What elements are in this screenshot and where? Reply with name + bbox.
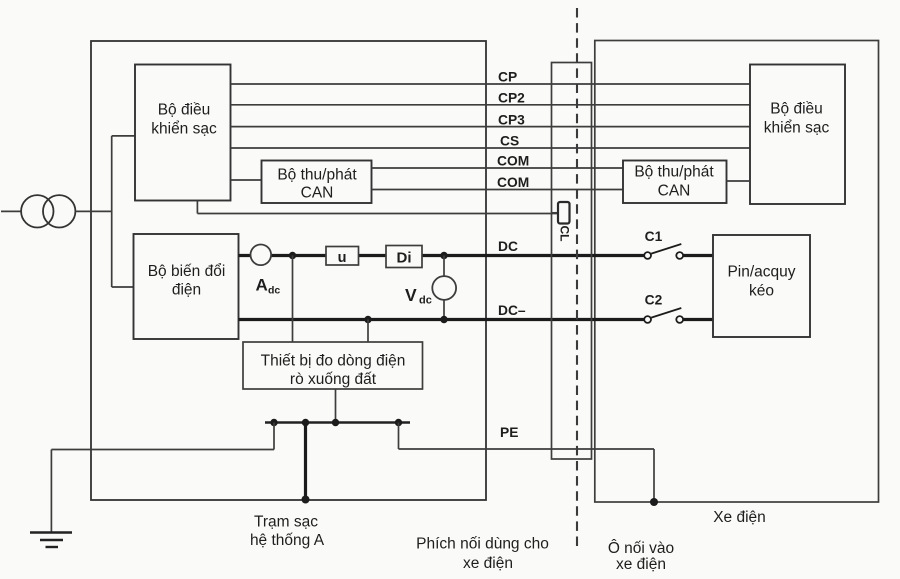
wire: transformer to internal branch: [75, 210, 111, 212]
svg-text:Ô nối vào: Ô nối vào: [608, 540, 674, 557]
ammeter Adc: [250, 245, 271, 266]
svg-text:u: u: [338, 250, 347, 266]
wire CP: [231, 83, 751, 85]
svg-text:DC: DC: [498, 239, 518, 254]
svg-text:khiển sạc: khiển sạc: [151, 121, 217, 138]
svg-text:COM: COM: [497, 175, 529, 190]
transformer (two overlapping circles): [21, 195, 53, 227]
wire DC- (vehicle side, thick): [683, 318, 713, 321]
node: DC junction to Vdc: [440, 252, 447, 259]
svg-text:Bộ điều: Bộ điều: [158, 102, 211, 119]
svg-text:Trạm sạc: Trạm sạc: [254, 514, 318, 531]
wire: DC- junction down to leakage detector box: [367, 320, 369, 343]
svg-text:V: V: [405, 285, 417, 305]
wire: leakage detector down to PE bus: [335, 389, 337, 423]
wire: controller bottom stub down: [196, 201, 198, 214]
node: DC junction to leakage detector: [289, 252, 296, 259]
svg-text:dc: dc: [419, 295, 432, 307]
svg-text:CS: CS: [500, 134, 519, 149]
node: DC- junction from Vdc: [440, 316, 447, 323]
wire: branch to power converter: [112, 286, 134, 288]
svg-text:CP: CP: [498, 70, 517, 85]
wire DC+ (station side, thick): [239, 254, 645, 257]
svg-text:A: A: [256, 276, 268, 295]
wire: controller to CL contact: [197, 213, 558, 215]
voltmeter Vdc: [432, 276, 456, 300]
wire: vertical branch bus inside station: [111, 136, 113, 287]
wire COM: [372, 167, 624, 169]
box: Bộ thu/phát CAN (station CAN transceiver): [262, 161, 372, 204]
box: u (voltage measurement): [326, 247, 359, 266]
box: Thiết bị đo dòng điện rò xuống đất (earth leakage current detector): [243, 342, 423, 389]
vehicle connector body (Phích nối): [552, 63, 592, 460]
svg-text:khiển sạc: khiển sạc: [764, 120, 830, 137]
box: Bộ biến đổi điện (power converter): [134, 234, 239, 339]
svg-text:CAN: CAN: [301, 185, 334, 202]
svg-text:CP3: CP3: [498, 112, 525, 127]
wire DC+ (vehicle side, thick): [683, 254, 713, 257]
svg-text:Phích nối dùng cho: Phích nối dùng cho: [416, 536, 549, 553]
wire: junction down to voltmeter: [443, 256, 445, 277]
wire: down to earth symbol: [50, 450, 52, 533]
svg-text:CAN: CAN: [658, 183, 691, 200]
svg-text:CL: CL: [557, 226, 571, 242]
svg-text:Bộ điều: Bộ điều: [770, 101, 823, 118]
wire: DC junction down to leakage detector box: [292, 256, 294, 343]
node: PE bond at vehicle box edge: [650, 498, 658, 506]
box: Bộ điều khiển sạc (station charge controller): [135, 65, 231, 201]
electric vehicle outer box (Xe điện): [595, 41, 879, 503]
node on PE bus (to earth): [270, 419, 277, 426]
ground (earth electrode symbol): [30, 531, 72, 533]
node on PE bus (to station frame): [302, 419, 309, 426]
svg-text:Bộ thu/phát: Bộ thu/phát: [634, 164, 714, 181]
svg-text:CP2: CP2: [498, 91, 525, 106]
box: Bộ điều khiển sạc (vehicle charge controller): [750, 65, 845, 205]
contact CL stub: [552, 212, 559, 214]
node: DC- junction to leakage detector: [364, 316, 371, 323]
wire: PE bus: [265, 421, 410, 423]
node on PE bus (to vehicle PE): [395, 419, 402, 426]
svg-text:Thiết bị đo dòng điện: Thiết bị đo dòng điện: [261, 353, 406, 370]
wire: AC supply into transformer: [1, 210, 21, 212]
box: Di (current measurement): [386, 246, 422, 268]
wire: voltmeter down to DC-: [443, 300, 445, 320]
wire: PE down to vehicle chassis: [653, 449, 655, 502]
box: Bộ thu/phát CAN (vehicle CAN transceiver): [623, 161, 727, 204]
svg-text:Pin/acquy: Pin/acquy: [727, 264, 795, 281]
box: Pin/acquy kéo (traction battery): [713, 235, 810, 337]
wire: PE bus down toward earth: [273, 423, 275, 450]
svg-text:Xe điện: Xe điện: [713, 509, 766, 526]
svg-text:Bộ thu/phát: Bộ thu/phát: [277, 167, 357, 184]
svg-text:xe điện: xe điện: [616, 556, 666, 573]
wire PE to vehicle: [399, 448, 655, 450]
wire CP2: [231, 104, 751, 106]
node: frame bond at station box edge: [302, 496, 310, 504]
svg-text:PE: PE: [500, 425, 518, 440]
wire: PE drop from bus: [398, 423, 400, 450]
svg-text:DC–: DC–: [498, 303, 526, 318]
svg-text:COM: COM: [497, 154, 529, 169]
interface dashed line: [576, 8, 578, 547]
wire: controller to CAN transceiver (station): [231, 179, 262, 181]
wire CS: [231, 147, 751, 149]
wire CP3: [231, 126, 751, 128]
contact CL (latch contact): [558, 202, 570, 224]
wire COM2: [372, 189, 624, 191]
svg-text:dc: dc: [268, 285, 280, 297]
wire: station frame bond (thick): [304, 423, 307, 500]
svg-text:điện: điện: [172, 282, 201, 299]
svg-text:Bộ biến đổi: Bộ biến đổi: [148, 263, 226, 280]
wire DC- (station side, thick): [239, 318, 645, 321]
svg-text:xe điện: xe điện: [463, 555, 513, 572]
wire: horizontal run to earth electrode: [51, 449, 274, 451]
svg-text:kéo: kéo: [749, 283, 774, 300]
svg-text:hệ thống A: hệ thống A: [250, 532, 325, 549]
svg-text:rò xuống đất: rò xuống đất: [290, 371, 377, 388]
svg-text:C1: C1: [645, 229, 663, 244]
wire: branch to charge controller: [112, 135, 135, 137]
wire: vehicle CAN to controller: [727, 180, 751, 182]
charging station outer box (Trạm sạc hệ thống A): [91, 41, 486, 500]
svg-text:C2: C2: [645, 293, 663, 308]
svg-text:Di: Di: [397, 250, 412, 267]
node on PE bus (from detector): [332, 419, 339, 426]
